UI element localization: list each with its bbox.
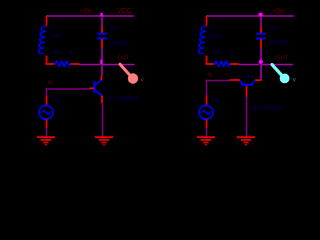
svg-text:Q1 2N3904: Q1 2N3904: [108, 97, 139, 103]
capacitor C1 pin top: [101, 27, 103, 34]
ground under Q2 base: [237, 137, 255, 145]
wire emitter to ground: [102, 103, 104, 137]
svg-text:V1: V1: [53, 98, 61, 104]
wire base to ground right: [246, 97, 248, 137]
source V1 pin bottom: [46, 119, 48, 128]
svg-text:IN: IN: [48, 81, 54, 87]
node junction left rail: [100, 13, 102, 17]
wire source right to ground: [206, 128, 208, 137]
svg-text:C1: C1: [110, 25, 118, 31]
transistor Q2 pin base: [246, 86, 248, 97]
capacitor C2 pin bottom: [260, 39, 262, 48]
wire source right top vertical: [206, 80, 208, 96]
inductor L2: [198, 26, 206, 54]
wire rail to C1: [101, 16, 103, 27]
svg-text:1mH: 1mH: [49, 34, 62, 40]
svg-text:C2: C2: [269, 26, 277, 32]
resistor R2: [214, 61, 230, 67]
wire R1 to collector node: [79, 64, 100, 66]
wire L1 to R1: [46, 63, 55, 65]
wire collector node down: [101, 65, 103, 77]
ground under V2: [197, 137, 215, 145]
svg-text:1000pF: 1000pF: [269, 40, 290, 46]
source V2 pin top: [206, 96, 208, 106]
transistor Q1 pin collector: [101, 76, 103, 81]
source V1 pin top: [46, 96, 48, 106]
svg-text:L2: L2: [210, 25, 217, 31]
svg-text:Q2 2N3904: Q2 2N3904: [252, 106, 283, 112]
transistor Q2: [240, 80, 256, 85]
capacitor C2: [256, 34, 266, 39]
wire V2 to emitter: [207, 80, 231, 82]
inductor L1: [38, 26, 46, 54]
svg-text:R2: R2: [213, 50, 221, 56]
probe P2: [272, 65, 290, 84]
source V2 pin bottom: [206, 119, 208, 128]
svg-text:+5V: +5V: [273, 8, 285, 15]
transistor Q1: [94, 80, 101, 95]
node junction left collector: [100, 60, 102, 65]
svg-text:V2: V2: [211, 98, 219, 104]
node junction right collector: [259, 60, 263, 64]
svg-text:1000pF: 1000pF: [109, 41, 130, 47]
svg-text:v: v: [293, 78, 296, 84]
resistor R2 pin right: [230, 63, 239, 65]
inductor L2 pin top: [206, 16, 208, 26]
wire R2 to collector node: [239, 64, 259, 66]
source V2: [199, 105, 213, 119]
svg-text:v: v: [141, 78, 144, 84]
wire source to ground: [46, 128, 48, 137]
ground under Q1 emitter: [95, 137, 113, 145]
capacitor C1: [97, 34, 107, 39]
wire right collector node down: [260, 65, 262, 80]
svg-text:VCC: VCC: [117, 8, 132, 15]
resistor R1 pin right: [71, 63, 80, 65]
probe P1: [120, 64, 138, 84]
capacitor C1 pin bottom: [101, 39, 103, 48]
svg-text:R1: R1: [54, 51, 62, 57]
wire L2 to R2: [206, 63, 214, 65]
resistor R1: [55, 61, 71, 67]
svg-text:+5V: +5V: [80, 8, 92, 15]
inductor L1 pin top: [46, 16, 48, 26]
inductor L1 pin bottom: [46, 56, 48, 65]
svg-text:OUT: OUT: [118, 56, 130, 62]
wire collector node to probe: [103, 64, 135, 66]
svg-text:Q 2: Q 2: [245, 74, 255, 80]
wire source top vertical: [46, 88, 48, 95]
svg-text:IN: IN: [207, 73, 213, 79]
source V1: [39, 105, 53, 119]
wire C2 to collector node: [260, 48, 262, 60]
inductor L2 pin bottom: [206, 56, 208, 65]
wire +5V rail left: [46, 15, 134, 17]
wire C1 to collector node: [101, 48, 103, 60]
svg-text:OUT: OUT: [276, 56, 288, 62]
transistor Q1 pin emitter: [101, 95, 103, 103]
transistor Q2 pin emitter: [230, 79, 240, 81]
wire +5V rail right: [206, 15, 294, 17]
node junction right rail: [259, 13, 263, 17]
wire V1 to base: [47, 88, 90, 90]
svg-text:10uH: 10uH: [207, 34, 221, 40]
svg-text:L1: L1: [50, 25, 57, 31]
transistor Q1 pin base: [90, 87, 95, 89]
ground under V1: [37, 137, 55, 145]
wire rail to C2: [260, 16, 262, 27]
capacitor C2 pin top: [260, 27, 262, 34]
transistor Q2 pin collector: [255, 79, 262, 81]
wire collector node to probe right: [261, 64, 293, 66]
